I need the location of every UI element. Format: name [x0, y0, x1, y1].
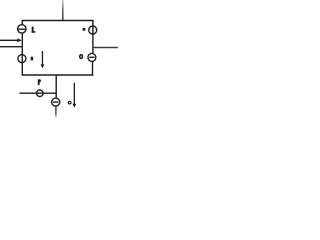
current arrow down-left shaft — [42, 51, 43, 65]
current arrow down-left head — [41, 64, 45, 68]
wire right lead — [93, 47, 118, 49]
current arrow into node shaft — [0, 39, 18, 41]
source L circle — [18, 25, 26, 33]
source O circle — [88, 53, 96, 61]
wire left branch through source N — [21, 33, 23, 75]
wire bottom horizontal — [22, 74, 94, 76]
source Q circle — [52, 98, 60, 106]
wire below source O — [92, 61, 94, 75]
label o near source Q — [68, 101, 71, 104]
wire left lead — [0, 46, 22, 48]
source Q bar — [53, 101, 58, 103]
current arrow down-right head — [72, 104, 76, 108]
wire top horizontal — [22, 20, 94, 22]
current arrow down-right shaft — [74, 83, 75, 104]
label O — [80, 55, 83, 59]
label P stem — [38, 79, 40, 85]
source P circle — [37, 90, 44, 97]
wire right branch through source M — [92, 21, 94, 54]
wire top vertical stub — [62, 0, 64, 21]
wire tail below source Q — [55, 106, 57, 117]
source L bar — [19, 28, 26, 30]
wire middle branch down — [55, 75, 57, 99]
wire P horizontal through source P — [19, 92, 56, 94]
current arrow into node head — [17, 38, 22, 42]
label P bowl — [39, 79, 41, 82]
wire left drop to source L — [21, 21, 23, 26]
label N blob — [31, 57, 33, 61]
source M circle — [89, 26, 97, 34]
source O bar — [89, 56, 94, 58]
source N circle — [18, 55, 26, 63]
label M blob — [83, 28, 86, 31]
label L — [32, 27, 34, 33]
